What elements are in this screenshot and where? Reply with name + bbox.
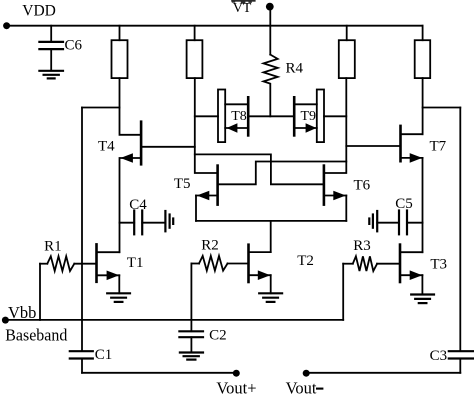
svg-text:T3: T3 — [430, 256, 447, 272]
svg-text:C6: C6 — [65, 38, 83, 54]
svg-text:VDD: VDD — [22, 2, 56, 19]
svg-text:Baseband: Baseband — [5, 325, 68, 344]
svg-text:T5: T5 — [174, 176, 191, 192]
svg-text:T9: T9 — [301, 109, 317, 124]
svg-text:VT: VT — [233, 1, 252, 16]
svg-text:R2: R2 — [201, 238, 219, 254]
svg-text:R3: R3 — [353, 238, 371, 254]
svg-text:R1: R1 — [44, 238, 62, 254]
svg-text:C4: C4 — [129, 197, 147, 213]
svg-text:T8: T8 — [231, 109, 247, 124]
svg-text:T2: T2 — [297, 253, 314, 269]
svg-text:T1: T1 — [127, 255, 144, 271]
svg-text:C2: C2 — [209, 328, 227, 344]
svg-text:T7: T7 — [430, 138, 447, 154]
svg-text:C1: C1 — [95, 347, 113, 363]
svg-text:Vbb: Vbb — [8, 303, 36, 322]
svg-text:C3: C3 — [430, 348, 448, 364]
svg-text:T4: T4 — [98, 139, 115, 155]
svg-text:C5: C5 — [395, 196, 413, 212]
svg-text:Vout: Vout — [286, 379, 317, 395]
svg-text:R4: R4 — [286, 60, 304, 76]
svg-text:Vout+: Vout+ — [216, 379, 256, 395]
svg-text:T6: T6 — [354, 177, 371, 193]
